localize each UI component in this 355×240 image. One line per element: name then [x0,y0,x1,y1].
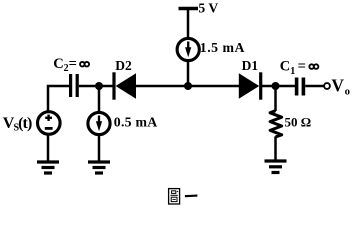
node C junction dot [272,82,280,90]
ground under Vs [37,162,59,173]
wire D2 to D1 (through node B) [136,85,239,88]
wire node A to diode D2 [99,85,113,88]
capacitor C2 [53,56,89,97]
svg-text:C1: C1 [280,59,295,77]
resistor R1 50 ohm [270,111,311,137]
wire corner Vs to capacitor C2 [48,86,69,111]
output terminal Vo [324,75,350,97]
svg-text:D2: D2 [115,58,132,73]
wire R1 to ground [274,137,277,162]
ground under I2 [88,162,110,173]
wire C2 to node A [79,85,100,88]
ground under R1 [265,161,287,173]
svg-text:=: = [298,59,306,75]
current source I2 0.5 mA [88,112,158,134]
voltage source Vs(t) [3,112,60,135]
svg-text:0.5 mA: 0.5 mA [114,115,158,130]
svg-text:50 Ω: 50 Ω [285,114,312,129]
current source I1 1.5 mA [177,38,245,60]
wire C1 to output terminal [305,85,324,88]
wire D1 to node C and capacitor C1 [262,85,295,88]
svg-text:D1: D1 [242,58,259,73]
wire I2 to ground [98,135,101,163]
diode D2 [114,58,136,100]
power +5V [179,1,219,16]
svg-text:5 V: 5 V [198,1,218,16]
caption 圖一 (Figure 1) drawn as vector strokes [169,189,198,204]
wire 5V to current source I1 [187,9,190,39]
wire node A to current source I2 [98,86,101,113]
svg-text:VS(t): VS(t) [3,115,32,134]
node A junction dot [95,82,103,90]
svg-text:=: = [69,56,77,72]
svg-text:C2: C2 [53,56,68,74]
node B junction dot [184,82,192,90]
diode D1 [239,58,261,100]
capacitor C1 [280,59,319,96]
svg-text:Vo: Vo [331,75,350,97]
wire I1 to node B [187,61,190,88]
wire Vs to ground [47,134,50,162]
svg-text:1.5 mA: 1.5 mA [200,40,245,55]
wire node C to resistor R1 [274,86,277,111]
